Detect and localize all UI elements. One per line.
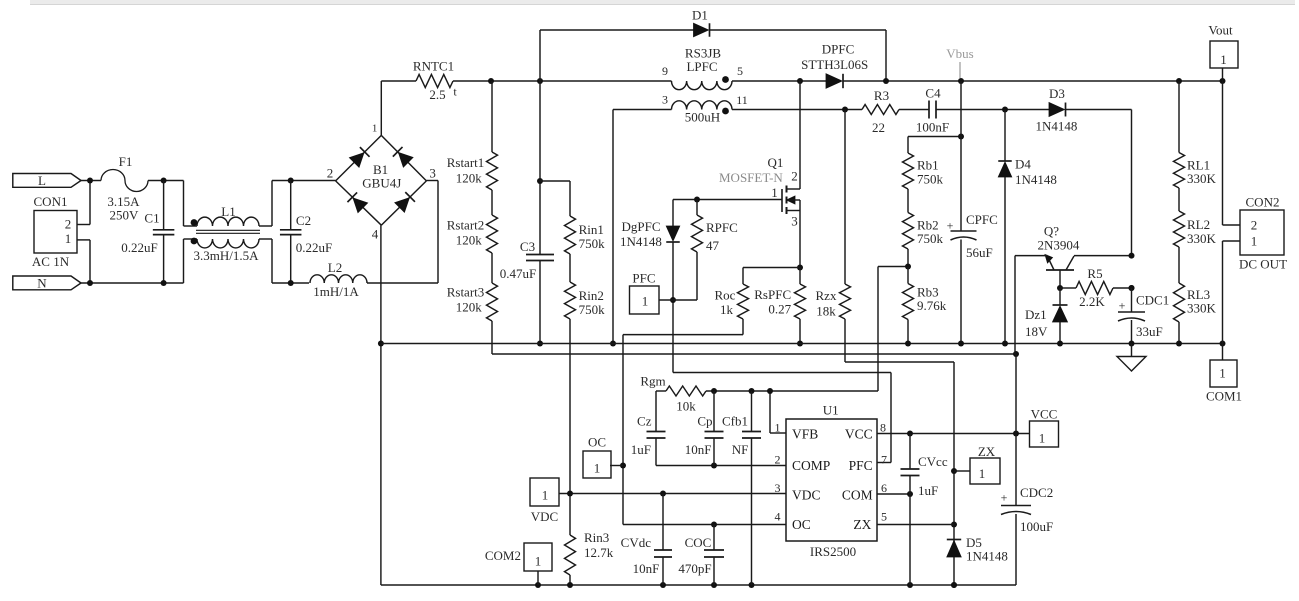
svg-text:ZX: ZX (978, 444, 996, 459)
svg-text:Cp: Cp (697, 414, 712, 429)
svg-text:R5: R5 (1087, 266, 1102, 281)
svg-text:Rin2: Rin2 (579, 288, 604, 303)
svg-text:C3: C3 (520, 239, 535, 254)
svg-text:VCC: VCC (845, 427, 873, 442)
svg-text:1N4148: 1N4148 (1015, 172, 1057, 187)
svg-text:L1: L1 (221, 204, 235, 219)
svg-text:750k: 750k (917, 231, 944, 246)
svg-text:250V: 250V (110, 208, 140, 223)
svg-text:6: 6 (881, 481, 887, 495)
svg-text:COM: COM (842, 488, 873, 503)
svg-text:DC OUT: DC OUT (1239, 257, 1287, 272)
svg-text:4: 4 (372, 227, 379, 242)
svg-text:9.76k: 9.76k (917, 298, 947, 313)
svg-text:1uF: 1uF (918, 483, 938, 498)
svg-text:CDC2: CDC2 (1020, 485, 1053, 500)
svg-text:RPFC: RPFC (706, 220, 738, 235)
svg-text:1: 1 (1219, 366, 1226, 381)
svg-text:750k: 750k (579, 236, 606, 251)
svg-text:470pF: 470pF (678, 561, 711, 576)
svg-text:IRS2500: IRS2500 (810, 544, 856, 559)
svg-text:2: 2 (1251, 218, 1258, 233)
svg-text:L: L (38, 173, 46, 188)
svg-text:1: 1 (372, 123, 378, 135)
svg-text:COMP: COMP (792, 458, 830, 473)
svg-text:3: 3 (662, 93, 668, 107)
svg-text:56uF: 56uF (966, 245, 993, 260)
svg-text:500uH: 500uH (685, 110, 720, 125)
svg-text:1N4148: 1N4148 (1036, 119, 1078, 134)
svg-text:OC: OC (792, 517, 811, 532)
svg-text:Vout: Vout (1208, 23, 1233, 38)
svg-text:1: 1 (542, 488, 549, 503)
svg-text:NF: NF (732, 442, 749, 457)
svg-text:100nF: 100nF (916, 120, 949, 135)
svg-text:R3: R3 (874, 88, 889, 103)
svg-text:Cz: Cz (637, 414, 652, 429)
svg-text:Rstart1: Rstart1 (447, 155, 485, 170)
svg-text:Rstart2: Rstart2 (447, 218, 485, 233)
svg-text:DgPFC: DgPFC (621, 219, 660, 234)
svg-text:VDC: VDC (792, 488, 821, 503)
svg-text:Q?: Q? (1044, 224, 1059, 239)
svg-text:2: 2 (65, 217, 72, 232)
svg-text:1k: 1k (720, 302, 734, 317)
svg-text:1mH/1A: 1mH/1A (313, 284, 359, 299)
svg-text:1: 1 (771, 185, 778, 200)
svg-text:CVcc: CVcc (918, 454, 948, 469)
svg-text:Rstart3: Rstart3 (447, 285, 485, 300)
svg-text:Q1: Q1 (768, 155, 784, 170)
svg-text:47: 47 (706, 238, 720, 253)
svg-text:1N4148: 1N4148 (620, 234, 662, 249)
svg-text:Cfb1: Cfb1 (722, 414, 748, 429)
svg-text:Rin3: Rin3 (584, 530, 609, 545)
svg-text:U1: U1 (823, 403, 839, 418)
svg-text:Dz1: Dz1 (1025, 307, 1047, 322)
svg-text:RsPFC: RsPFC (754, 287, 791, 302)
svg-text:10nF: 10nF (685, 442, 712, 457)
svg-text:Rin1: Rin1 (579, 222, 604, 237)
svg-text:CDC1: CDC1 (1136, 293, 1169, 308)
svg-text:3: 3 (791, 214, 798, 229)
svg-text:1: 1 (535, 554, 542, 569)
svg-text:D1: D1 (692, 8, 708, 23)
svg-text:CON1: CON1 (34, 194, 68, 209)
svg-text:5: 5 (737, 64, 743, 78)
svg-text:ZX: ZX (853, 517, 871, 532)
svg-text:2.2K: 2.2K (1079, 294, 1105, 309)
svg-text:4: 4 (775, 510, 781, 524)
svg-text:F1: F1 (119, 154, 133, 169)
svg-text:PFC: PFC (632, 271, 655, 286)
svg-text:2: 2 (327, 166, 334, 181)
svg-text:1N4148: 1N4148 (966, 549, 1008, 564)
svg-text:Rb1: Rb1 (917, 158, 939, 173)
svg-text:120k: 120k (456, 171, 483, 186)
svg-text:+: + (1119, 299, 1126, 313)
svg-text:0.27: 0.27 (768, 302, 791, 317)
svg-text:Rgm: Rgm (640, 374, 665, 389)
svg-text:11: 11 (736, 93, 748, 107)
svg-text:5: 5 (881, 510, 887, 524)
svg-text:1: 1 (642, 294, 649, 309)
svg-text:2.5: 2.5 (429, 87, 445, 102)
svg-text:LPFC: LPFC (686, 59, 717, 74)
svg-text:Vbus: Vbus (946, 46, 973, 61)
svg-text:PFC: PFC (849, 458, 873, 473)
svg-text:VDC: VDC (531, 509, 558, 524)
svg-text:COM1: COM1 (1206, 389, 1242, 404)
svg-text:18V: 18V (1025, 324, 1048, 339)
svg-text:330K: 330K (1187, 171, 1217, 186)
svg-text:CPFC: CPFC (966, 212, 998, 227)
svg-text:+: + (947, 219, 954, 233)
svg-text:C4: C4 (925, 86, 941, 101)
svg-text:+: + (1001, 491, 1008, 505)
svg-text:750k: 750k (579, 302, 606, 317)
svg-text:3: 3 (429, 166, 436, 181)
svg-text:D3: D3 (1049, 86, 1065, 101)
svg-text:AC 1N: AC 1N (32, 254, 70, 269)
svg-text:3.3mH/1.5A: 3.3mH/1.5A (194, 248, 260, 263)
svg-text:12.7k: 12.7k (584, 545, 614, 560)
svg-text:Rzx: Rzx (816, 288, 837, 303)
svg-text:RL2: RL2 (1187, 217, 1210, 232)
svg-text:N: N (37, 276, 47, 291)
svg-text:OC: OC (588, 435, 606, 450)
svg-text:COC: COC (685, 535, 712, 550)
svg-text:1: 1 (1220, 52, 1227, 67)
svg-text:18k: 18k (816, 304, 836, 319)
svg-text:STTH3L06S: STTH3L06S (801, 57, 868, 72)
svg-text:1uF: 1uF (631, 442, 651, 457)
svg-text:33uF: 33uF (1136, 324, 1163, 339)
svg-text:0.22uF: 0.22uF (121, 240, 157, 255)
svg-text:C1: C1 (144, 211, 159, 226)
svg-text:2: 2 (775, 453, 781, 467)
svg-text:330K: 330K (1187, 301, 1217, 316)
svg-text:10nF: 10nF (633, 561, 660, 576)
svg-text:2: 2 (791, 169, 798, 184)
svg-text:0.22uF: 0.22uF (296, 240, 332, 255)
svg-text:8: 8 (880, 421, 886, 435)
svg-text:1: 1 (594, 461, 601, 476)
svg-text:7: 7 (881, 453, 887, 467)
svg-text:VCC: VCC (1031, 407, 1058, 422)
svg-text:1: 1 (1251, 234, 1258, 249)
svg-text:DPFC: DPFC (822, 42, 855, 57)
svg-text:C2: C2 (296, 213, 311, 228)
svg-text:9: 9 (662, 64, 668, 78)
svg-text:RNTC1: RNTC1 (413, 59, 454, 74)
svg-text:MOSFET-N: MOSFET-N (719, 170, 783, 185)
svg-text:120k: 120k (456, 233, 483, 248)
svg-text:L2: L2 (328, 260, 342, 275)
svg-text:D4: D4 (1015, 157, 1031, 172)
svg-text:22: 22 (872, 120, 885, 135)
svg-text:330K: 330K (1187, 231, 1217, 246)
svg-text:0.47uF: 0.47uF (500, 266, 536, 281)
svg-text:VFB: VFB (792, 427, 818, 442)
svg-text:CVdc: CVdc (621, 535, 652, 550)
svg-text:GBU4J: GBU4J (362, 176, 401, 191)
svg-text:1: 1 (979, 466, 986, 481)
svg-text:1: 1 (65, 231, 72, 246)
svg-text:CON2: CON2 (1246, 195, 1280, 210)
svg-text:120k: 120k (456, 300, 483, 315)
svg-text:Roc: Roc (715, 288, 736, 303)
svg-text:100uF: 100uF (1020, 519, 1053, 534)
svg-text:2N3904: 2N3904 (1038, 238, 1080, 253)
svg-text:750k: 750k (917, 172, 944, 187)
svg-text:1: 1 (1039, 431, 1046, 446)
svg-text:COM2: COM2 (485, 548, 521, 563)
svg-text:10k: 10k (676, 399, 696, 414)
